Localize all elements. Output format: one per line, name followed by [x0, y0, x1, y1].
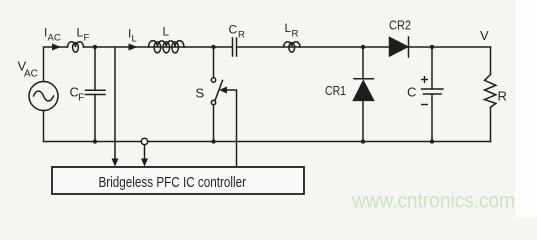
wire top rail: LF to CR plate: [84, 46, 233, 48]
arrow pointing at switch blade: [219, 87, 227, 94]
svg-text:S: S: [196, 86, 205, 101]
label I_L: [128, 27, 137, 45]
current sensor circle on bottom rail: [141, 138, 147, 160]
svg-text:L: L: [163, 25, 170, 39]
capacitor C_R: [233, 38, 237, 56]
svg-text:L: L: [285, 21, 292, 35]
diode CR2: [390, 37, 409, 57]
label C (output cap): [407, 85, 416, 100]
inductor L_R: [284, 42, 301, 52]
arrow into controller from sensor: [141, 159, 148, 167]
label L_R: [285, 21, 299, 40]
svg-text:Bridgeless PFC IC controller: Bridgeless PFC IC controller: [99, 175, 247, 191]
wire bottom rail: [44, 141, 491, 143]
node after L_F: [93, 45, 97, 49]
svg-text:C: C: [229, 23, 238, 37]
label minus: [421, 104, 428, 106]
wire right rail: [490, 47, 492, 142]
sense line from node after L_F down to controller: [114, 47, 116, 160]
arrow I_L: [129, 44, 138, 51]
node after L (switch top): [211, 45, 215, 49]
label V_AC: [18, 59, 38, 80]
label S: [196, 86, 205, 101]
svg-text:L: L: [77, 26, 84, 40]
label L: [163, 25, 170, 39]
capacitor C plates: [422, 89, 444, 94]
svg-text:R: R: [238, 30, 245, 41]
svg-text:R: R: [498, 89, 507, 104]
svg-text:R: R: [292, 29, 299, 40]
switch S contacts and blade: [211, 78, 222, 105]
diode CR1 branch wires: [362, 47, 364, 142]
node switch bottom: [211, 139, 215, 143]
node CR1 top: [361, 45, 365, 49]
arrow into controller from sense line: [112, 159, 119, 167]
controller box: [52, 167, 304, 194]
inductor L_F: [68, 42, 84, 52]
capacitor C_F: [86, 47, 106, 142]
watermark: [351, 189, 515, 213]
diode CR1: [354, 79, 374, 101]
node C top: [430, 45, 434, 49]
label C_R: [229, 23, 246, 41]
wire left rail bottom (source to bottom rail): [43, 111, 45, 142]
svg-text:AC: AC: [24, 69, 38, 80]
svg-text:CR2: CR2: [389, 18, 411, 33]
wire top rail: CR to right corner: [237, 46, 491, 48]
svg-text:www.cntronics.com: www.cntronics.com: [351, 189, 515, 213]
node C_F bottom: [93, 139, 97, 143]
svg-text:CR1: CR1: [325, 83, 346, 98]
label plus: [421, 76, 428, 83]
label R: [498, 89, 507, 104]
label C_F: [70, 85, 85, 104]
resistor R: [485, 75, 496, 108]
label L_F: [77, 26, 90, 44]
svg-text:AC: AC: [48, 33, 61, 44]
source V_AC: [29, 82, 58, 111]
svg-text:C: C: [407, 85, 416, 100]
switch S branch wires: [213, 47, 215, 142]
label Bridgeless PFC IC controller: [99, 175, 247, 191]
wire top rail left segment: [44, 47, 68, 82]
node C bottom: [430, 139, 434, 143]
svg-text:V: V: [480, 28, 489, 43]
svg-text:F: F: [78, 93, 84, 104]
label CR1: [325, 83, 346, 98]
label V: [480, 28, 489, 43]
switch control wire from controller: [226, 90, 237, 167]
arrow I_AC: [52, 44, 61, 51]
svg-text:L: L: [132, 34, 137, 45]
node CR1 bottom: [361, 139, 365, 143]
label I_AC: [44, 26, 61, 44]
capacitor C branch wires: [431, 47, 433, 142]
inductor L: [149, 41, 185, 53]
svg-text:F: F: [84, 33, 90, 44]
label CR2: [389, 18, 411, 33]
